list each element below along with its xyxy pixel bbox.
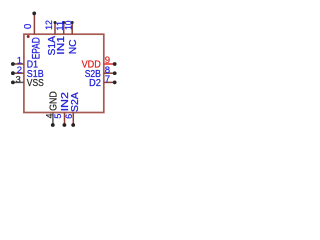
svg-text:6: 6 [64,114,74,119]
component body U1 [24,34,104,112]
pin 10 NC (top) [64,20,79,54]
pin 12 S1A (top) [44,20,58,55]
pin 4 GND (bottom) [45,91,60,127]
pin 9 VDD (right) [82,55,117,71]
svg-text:VSS: VSS [27,78,44,89]
svg-text:GND: GND [49,91,60,111]
pin 11 IN1 (top) [55,21,67,55]
svg-text:7: 7 [105,74,110,85]
svg-text:12: 12 [44,20,54,30]
pin 8 S2B (right) [85,65,117,80]
svg-text:S2A: S2A [70,92,81,112]
svg-text:3: 3 [15,74,20,85]
pin 2 S1B (left) [11,65,44,80]
pin 1 D1 (left) [11,56,38,71]
pin 3 VSS (left) [11,74,44,89]
svg-text:0: 0 [23,23,34,29]
pin 7 D2 (right) [89,74,117,89]
svg-text:D2: D2 [89,78,101,89]
pin 6 S2A (bottom) [64,92,81,127]
svg-text:EPAD: EPAD [30,37,42,59]
svg-text:10: 10 [64,20,74,29]
svg-text:NC: NC [68,39,79,54]
pin 5 IN2 (bottom) [53,92,71,127]
EPAD inner dot [27,35,30,38]
svg-text:5: 5 [53,114,63,119]
pin 0 EPAD (top) [23,12,42,60]
svg-text:IN1: IN1 [56,36,67,55]
